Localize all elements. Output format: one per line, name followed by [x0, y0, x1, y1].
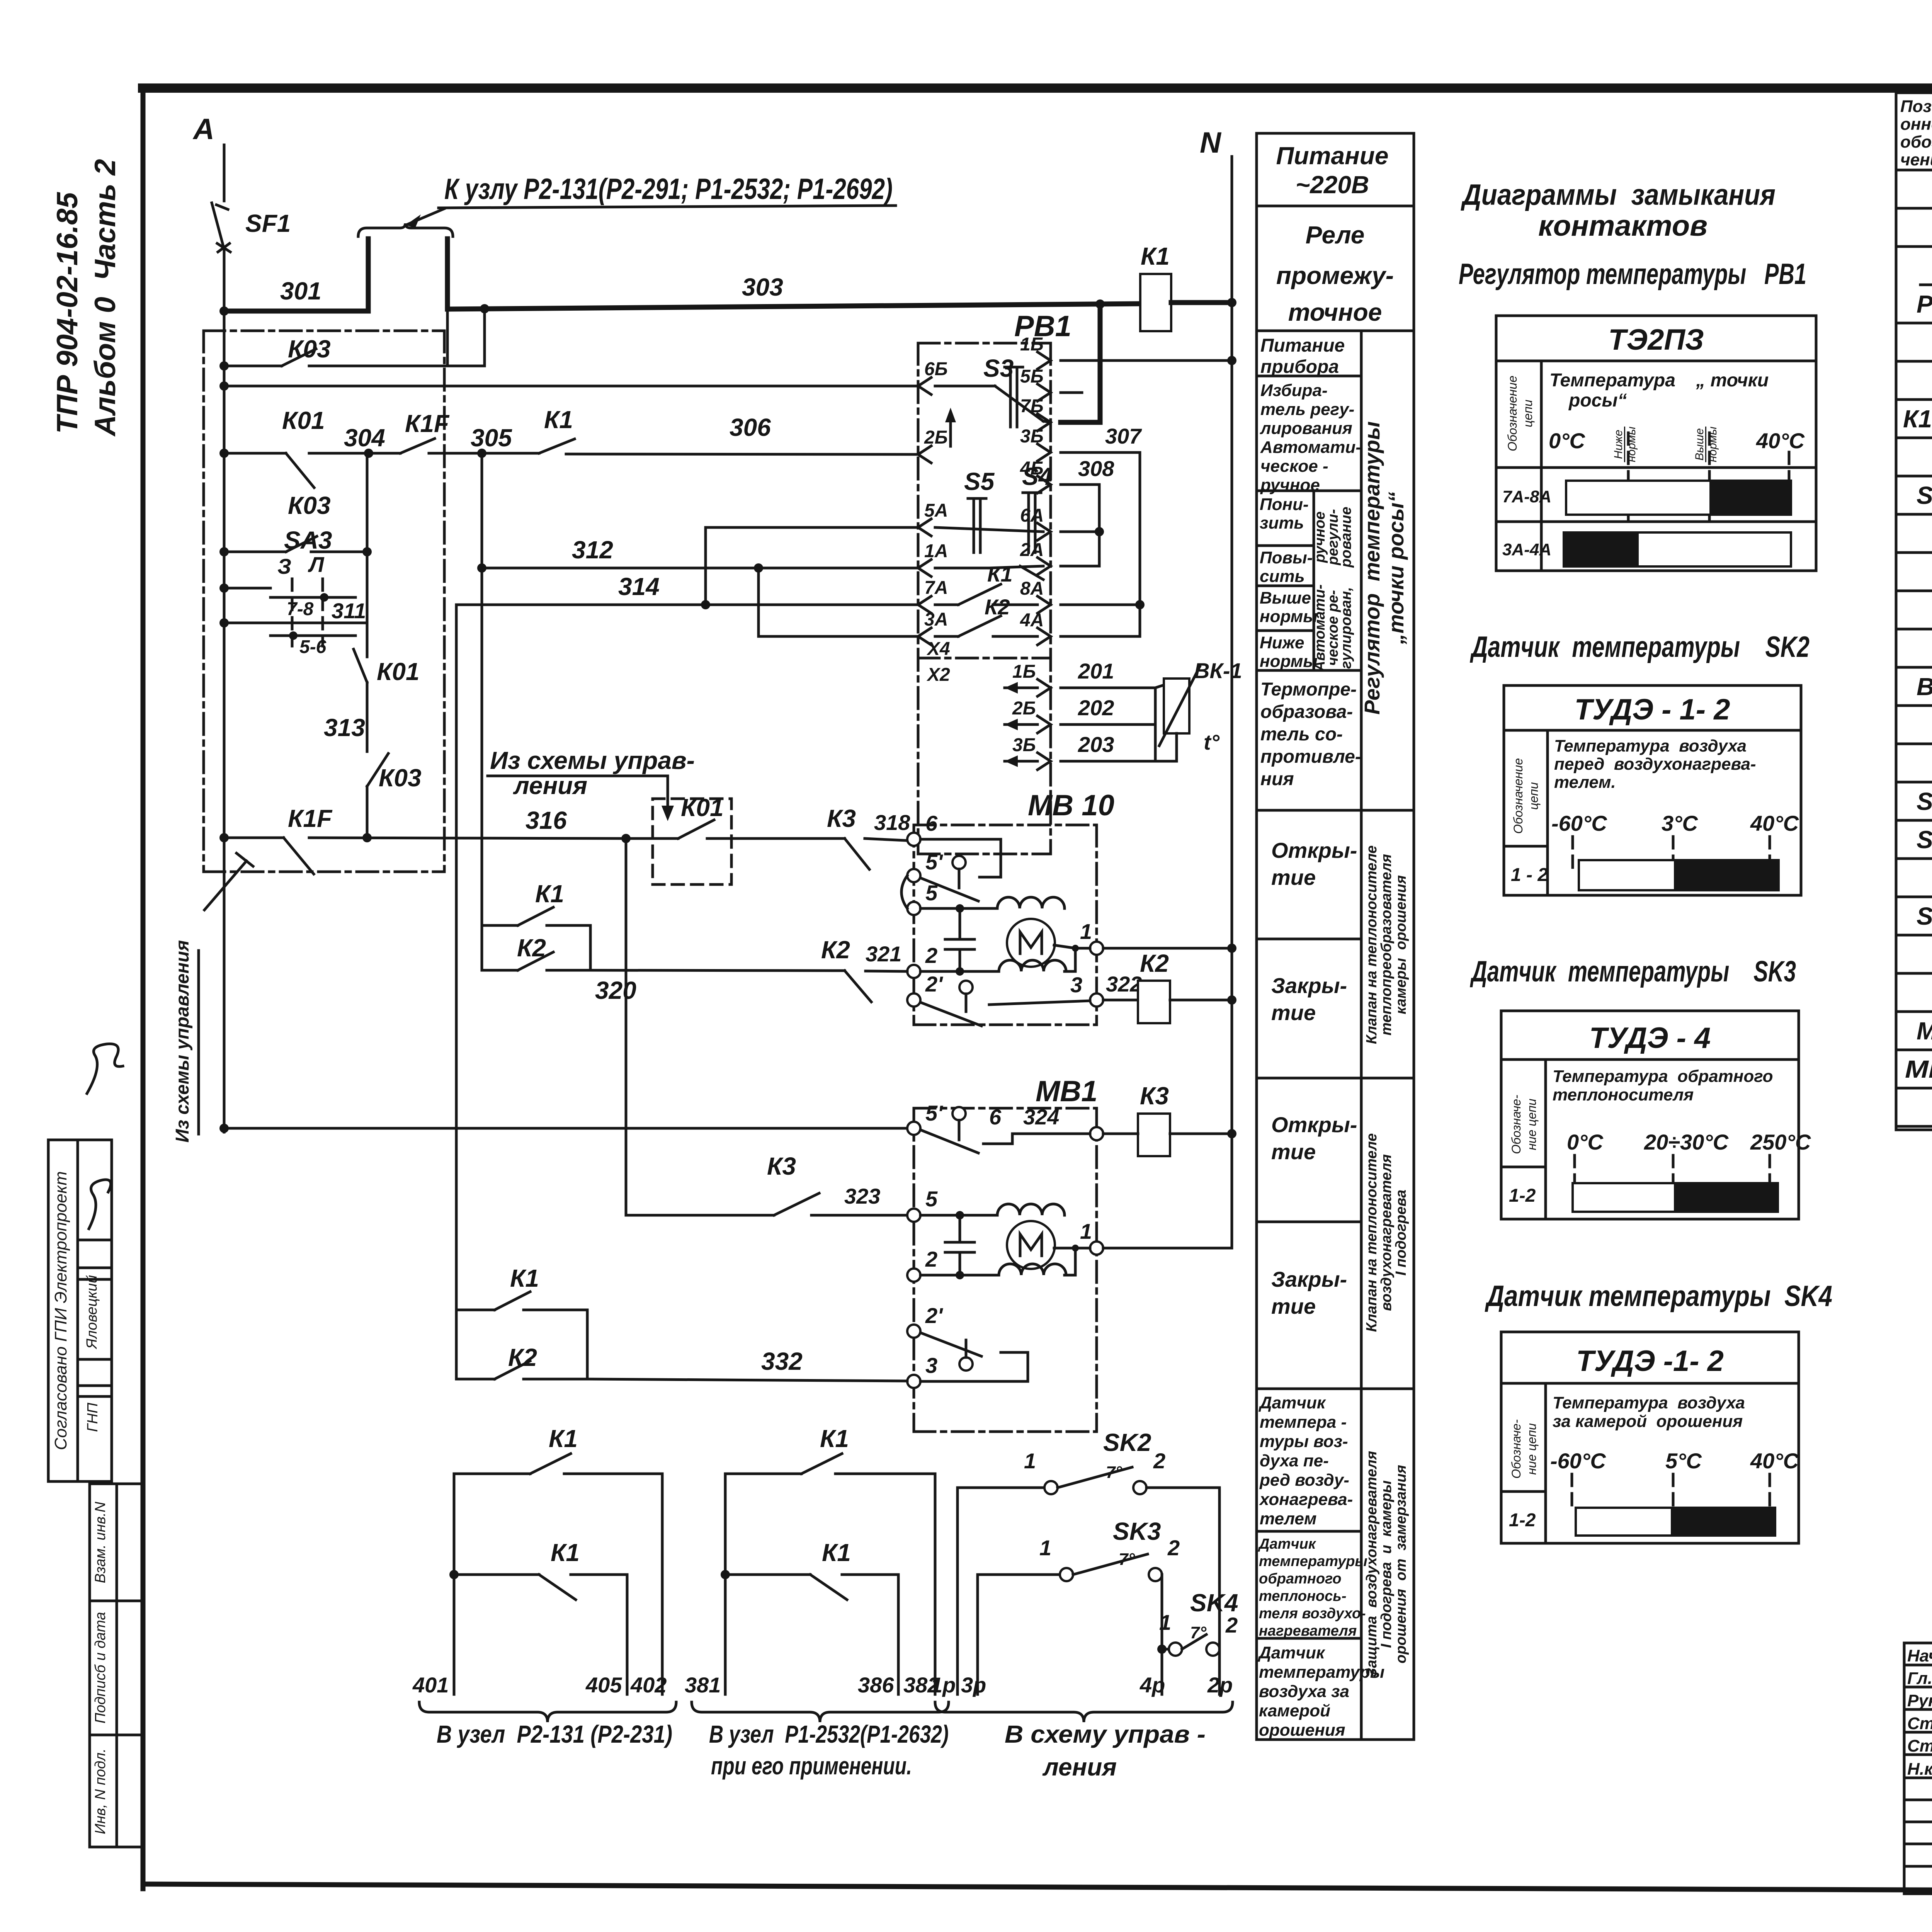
MB1 limit switch top	[920, 1107, 1090, 1153]
wire to PB1 terminal 6B	[224, 385, 918, 388]
MB10 terminals left	[907, 811, 943, 1007]
svg-text:ления: ления	[1042, 1753, 1117, 1781]
contact K03 in riser	[362, 753, 422, 842]
svg-text:304: 304	[344, 424, 385, 452]
svg-text:1-2: 1-2	[1509, 1510, 1536, 1531]
svg-text:6: 6	[989, 1105, 1002, 1129]
svg-text:2А: 2А	[1020, 540, 1044, 560]
svg-text:1-2: 1-2	[1509, 1185, 1536, 1206]
svg-text:2': 2'	[925, 972, 943, 996]
svg-text:К03: К03	[288, 492, 331, 519]
svg-text:К03: К03	[288, 335, 331, 363]
svg-text:306: 306	[730, 413, 771, 441]
svg-text:ТЭ2ПЗ: ТЭ2ПЗ	[1608, 323, 1704, 356]
svg-text:Н.контр.: Н.контр.	[1907, 1760, 1932, 1779]
svg-text:К2: К2	[508, 1344, 537, 1371]
svg-text:К1: К1	[822, 1539, 851, 1566]
contact K1F row 316	[224, 804, 631, 874]
svg-text:Инв, N подл.: Инв, N подл.	[92, 1748, 109, 1834]
svg-text:1: 1	[1024, 1449, 1036, 1473]
stub 5B	[1061, 391, 1082, 394]
svg-text:теплопреобразователя: теплопреобразователя	[1378, 854, 1395, 1036]
svg-text:7А-8А: 7А-8А	[1502, 487, 1551, 506]
svg-text:3: 3	[1070, 973, 1082, 997]
svg-text:ТПР 904-02-16.85: ТПР 904-02-16.85	[51, 192, 84, 434]
wire 314 / 7A row	[456, 573, 918, 609]
svg-text:К3: К3	[1140, 1082, 1169, 1110]
svg-text:S5: S5	[964, 468, 995, 495]
breaker SF1	[212, 203, 291, 252]
contact K3 wire 323	[626, 1152, 907, 1215]
bus A wire below SF1	[223, 249, 226, 1132]
wire 332	[587, 1347, 907, 1381]
svg-text:3А: 3А	[924, 609, 948, 630]
svg-text:323: 323	[844, 1184, 880, 1208]
PB1 right terminals	[1020, 334, 1051, 645]
row SK3	[1917, 902, 1932, 1007]
svg-text:К1: К1	[535, 880, 564, 908]
svg-text:2: 2	[1153, 1449, 1165, 1473]
svg-text:ручное: ручное	[1260, 476, 1320, 495]
svg-text:ред возду-: ред возду-	[1259, 1471, 1349, 1490]
svg-text:Температура обратного: Температура обратного	[1553, 1067, 1773, 1086]
svg-text:К01: К01	[681, 794, 724, 821]
signature rows text	[1907, 1646, 1932, 1779]
svg-text:Альбом 0 Часть 2: Альбом 0 Часть 2	[89, 159, 122, 437]
svg-text:К2: К2	[1140, 949, 1169, 977]
svg-text:313: 313	[324, 714, 365, 742]
svg-text:нормы: нормы	[1260, 607, 1318, 626]
svg-text:К3: К3	[767, 1152, 796, 1180]
svg-text:314: 314	[618, 573, 660, 600]
svg-text:Закры-: Закры-	[1271, 1267, 1347, 1291]
MB10 motor M	[1007, 919, 1055, 967]
svg-text:К1F: К1F	[405, 410, 450, 437]
wire 1B to N	[1061, 356, 1236, 365]
thermometer BK-1	[1155, 658, 1242, 761]
svg-text:Позици-: Позици-	[1900, 97, 1932, 116]
MB10 windings	[997, 897, 1065, 908]
svg-text:308: 308	[1078, 456, 1114, 481]
svg-text:Согласовано ГПИ Электропроект: Согласовано ГПИ Электропроект	[51, 1171, 70, 1450]
svg-text:духа пе-: духа пе-	[1260, 1451, 1329, 1470]
diagrams title	[1461, 179, 1776, 242]
svg-text:SK2: SK2	[1103, 1429, 1151, 1456]
svg-text:ние цепи: ние цепи	[1525, 1099, 1539, 1150]
svg-text:ВК-1: ВК-1	[1194, 658, 1242, 683]
panel boundary dash-dot	[204, 331, 444, 872]
svg-text:нагревателя: нагревателя	[1259, 1623, 1357, 1639]
svg-text:324: 324	[1023, 1105, 1059, 1129]
svg-text:Из схемы управ-: Из схемы управ-	[490, 747, 695, 774]
svg-text:3А-4А: 3А-4А	[1502, 540, 1551, 559]
svg-text:Питание: Питание	[1260, 335, 1345, 356]
svg-text:Х2: Х2	[926, 665, 950, 685]
svg-text:цепи: цепи	[1527, 782, 1541, 810]
svg-text:Автомати-: Автомати-	[1260, 438, 1361, 457]
svg-text:МВ10: МВ10	[1905, 1055, 1932, 1083]
svg-text:Температура воздуха: Температура воздуха	[1553, 1393, 1745, 1412]
svg-text:Датчик: Датчик	[1258, 1536, 1316, 1552]
svg-text:Клапан на теплоносителе: Клапан на теплоносителе	[1364, 845, 1380, 1044]
svg-text:Клапан на теплоносителе: Клапан на теплоносителе	[1364, 1133, 1380, 1332]
svg-text:чение: чение	[1900, 150, 1932, 169]
svg-text:Яловецкий: Яловецкий	[84, 1275, 100, 1350]
svg-text:1Б: 1Б	[1012, 662, 1036, 682]
svg-text:307: 307	[1105, 424, 1142, 448]
svg-text:401: 401	[412, 1673, 449, 1697]
contact K3 row 318	[827, 804, 913, 869]
svg-text:Выше: Выше	[1260, 588, 1311, 607]
tap to node P2-131: risers and brace	[358, 173, 896, 311]
svg-text:Откры-: Откры-	[1271, 1112, 1357, 1137]
MB1 motor M	[1007, 1221, 1055, 1269]
aux circuit to node P1-2532	[685, 1425, 949, 1780]
contact K2 wire 321	[821, 936, 907, 1002]
svg-text:Термопре-: Термопре-	[1260, 679, 1357, 700]
MB10 internal wires	[920, 908, 1090, 971]
riser x950 from row 304 to SA3 area	[366, 453, 369, 623]
MB10 limit switch top	[920, 839, 1001, 901]
contact K03 upper row	[224, 309, 485, 366]
link 3B-8A-4A	[1061, 452, 1145, 636]
svg-text:воздухонагревателя: воздухонагревателя	[1378, 1154, 1395, 1311]
svg-text:318: 318	[874, 810, 910, 835]
svg-text:Датчик температуры SK4: Датчик температуры SK4	[1485, 1280, 1832, 1313]
svg-text:ние цепи: ние цепи	[1525, 1423, 1539, 1475]
svg-text:тие: тие	[1271, 1000, 1316, 1025]
svg-text:К1: К1	[987, 562, 1013, 586]
bus A vertical wire	[223, 145, 226, 201]
border frame	[138, 83, 1932, 93]
svg-text:303: 303	[742, 273, 783, 301]
svg-text:1 - 2: 1 - 2	[1511, 865, 1548, 885]
riser x1181 down to MB1 contacts	[455, 605, 458, 1310]
svg-text:Пони-: Пони-	[1260, 495, 1309, 514]
svg-text:Обозначение: Обозначение	[1511, 758, 1525, 834]
svg-text:Питание: Питание	[1276, 142, 1389, 170]
svg-text:телем.: телем.	[1554, 773, 1616, 792]
row MB1 MB10	[1905, 1017, 1932, 1083]
switch S5	[964, 468, 995, 553]
leader from control circuit text	[488, 747, 695, 821]
svg-text:за камерой орошения: за камерой орошения	[1553, 1412, 1743, 1431]
svg-text:2: 2	[1167, 1536, 1180, 1560]
manual drive arrow	[945, 408, 956, 446]
svg-text:ческое -: ческое -	[1260, 457, 1328, 476]
svg-text:К01: К01	[377, 658, 420, 685]
svg-text:301: 301	[280, 277, 321, 305]
contact K1 branch MB10	[482, 880, 590, 970]
svg-text:Рук. гр.: Рук. гр.	[1907, 1691, 1932, 1710]
wire 308 chain 4B-6A-2A	[1061, 456, 1114, 566]
svg-text:образова-: образова-	[1260, 702, 1353, 722]
wire 301	[224, 277, 368, 311]
dashed box around contact K01	[626, 794, 845, 884]
svg-text:В схему управ -: В схему управ -	[1005, 1720, 1206, 1748]
aux circuit to control scheme SK2 SK3 SK4	[930, 1429, 1238, 1781]
MB10 terminals right 1 and 3	[1070, 919, 1142, 1007]
svg-text:Обозначение: Обозначение	[1505, 376, 1519, 451]
svg-text:К1÷К3: К1÷К3	[1903, 405, 1932, 433]
contact K1 7A-8A	[935, 562, 1037, 605]
svg-text:точное: точное	[1288, 298, 1382, 326]
wire 322 to coil K2	[1103, 999, 1138, 1002]
svg-text:ГНП: ГНП	[85, 1403, 101, 1432]
svg-text:Регулятор температуры РВ1: Регулятор температуры РВ1	[1459, 258, 1806, 291]
svg-text:З: З	[277, 554, 291, 578]
svg-text:теплоносителя: теплоносителя	[1553, 1085, 1694, 1104]
svg-text:туры воз-: туры воз-	[1260, 1432, 1348, 1451]
svg-text:7°: 7°	[1106, 1463, 1122, 1482]
stamp box Soglasovano	[48, 1044, 123, 1481]
svg-text:К1: К1	[820, 1425, 849, 1452]
contact K03 second row	[224, 492, 372, 556]
aux circuit to node P2-131	[412, 1425, 676, 1748]
svg-text:К2: К2	[821, 936, 850, 964]
relay coil K1	[1140, 242, 1171, 331]
svg-text:Температура „ точки: Температура „ точки	[1549, 370, 1769, 391]
diagram TUDE-1-2 second	[1501, 1332, 1799, 1543]
diagram TUDE-1-2	[1504, 685, 1801, 895]
wire 3A row	[759, 635, 918, 638]
svg-text:5А: 5А	[924, 500, 948, 521]
svg-text:4р: 4р	[1139, 1673, 1165, 1697]
contact K1 row 306	[482, 406, 918, 454]
link 7B to wire 303	[1061, 304, 1100, 422]
svg-text:перед воздухонагрева-: перед воздухонагрева-	[1554, 755, 1756, 774]
svg-text:К1: К1	[549, 1425, 578, 1452]
svg-text:3: 3	[925, 1353, 937, 1378]
svg-text:8А: 8А	[1020, 578, 1044, 599]
legend rotated regulator temperatury	[1360, 421, 1408, 714]
svg-text:1: 1	[1080, 1219, 1092, 1243]
svg-text:теля воздухо-: теля воздухо-	[1259, 1605, 1366, 1622]
svg-text:обратного: обратного	[1259, 1571, 1342, 1587]
svg-text:прибора: прибора	[1260, 357, 1339, 377]
svg-text:2Б: 2Б	[924, 427, 948, 448]
svg-text:темпера -: темпера -	[1260, 1413, 1347, 1432]
svg-text:2': 2'	[925, 1303, 943, 1328]
svg-text:2р: 2р	[1207, 1673, 1233, 1697]
svg-text:381: 381	[685, 1673, 721, 1697]
svg-text:В узел Р2-131 (Р2-231): В узел Р2-131 (Р2-231)	[437, 1720, 672, 1748]
svg-text:7°: 7°	[1119, 1550, 1135, 1569]
svg-text:воздуха за: воздуха за	[1259, 1682, 1349, 1701]
svg-text:К узлу Р2-131(Р2-291; Р1-2532;: К узлу Р2-131(Р2-291; Р1-2532; Р1-2692)	[444, 173, 893, 206]
svg-text:рование: рование	[1338, 507, 1354, 568]
contact 1A-2A	[935, 566, 1043, 580]
riser to wire 323	[625, 838, 628, 1215]
svg-text:цепи: цепи	[1521, 400, 1535, 427]
svg-text:7А: 7А	[924, 578, 948, 598]
svg-text:тель регу-: тель регу-	[1260, 400, 1354, 419]
PB1 measuring terminals 1B 2B 3B	[1005, 659, 1155, 770]
MB1 capacitor	[959, 1215, 961, 1242]
svg-text:S4: S4	[1022, 463, 1052, 490]
svg-text:5Б: 5Б	[1020, 366, 1044, 387]
svg-text:2Б: 2Б	[1012, 698, 1036, 719]
svg-text:промежу-: промежу-	[1276, 262, 1394, 289]
svg-text:0°С: 0°С	[1567, 1130, 1604, 1154]
svg-text:SK3: SK3	[1917, 902, 1932, 930]
svg-text:7°: 7°	[1190, 1623, 1206, 1642]
svg-text:6Б: 6Б	[924, 359, 948, 379]
svg-text:ТУДЭ - 4: ТУДЭ - 4	[1589, 1022, 1711, 1054]
svg-text:I подогрева: I подогрева	[1393, 1190, 1409, 1276]
contact K01 row 304	[224, 406, 385, 488]
svg-text:МВ1: МВ1	[1917, 1017, 1932, 1045]
relay coil K2	[1138, 949, 1236, 1023]
contact K1F	[369, 410, 512, 458]
svg-text:В узел Р1-2532(Р1-2632): В узел Р1-2532(Р1-2632)	[709, 1720, 949, 1748]
svg-text:противле-: противле-	[1260, 747, 1361, 767]
svg-text:К1: К1	[510, 1264, 539, 1292]
svg-text:Датчик: Датчик	[1257, 1643, 1326, 1662]
svg-text:40°С: 40°С	[1756, 429, 1805, 453]
title block signature columns	[1904, 1643, 1932, 1894]
svg-text:203: 203	[1078, 732, 1114, 757]
legend column header Pitanie 220V	[1257, 133, 1414, 206]
svg-text:Взам. инв.N: Взам. инв.N	[92, 1502, 109, 1583]
svg-text:1р: 1р	[930, 1673, 956, 1697]
svg-text:орошения от замерзания: орошения от замерзания	[1393, 1465, 1409, 1663]
svg-text:обозна-: обозна-	[1900, 133, 1932, 151]
svg-text:-60°С: -60°С	[1550, 1449, 1606, 1473]
MB1 internal wires	[920, 1215, 1090, 1275]
svg-text:SK2: SK2	[1917, 787, 1932, 815]
control circuit note vertical	[172, 853, 253, 1143]
svg-text:SA3: SA3	[284, 526, 332, 554]
dashed separator	[1920, 284, 1932, 286]
svg-text:Датчик: Датчик	[1258, 1393, 1327, 1412]
switch S3 inside PB1	[935, 354, 1051, 427]
legend box Rele promezhutochnoe	[1257, 206, 1414, 331]
svg-text:К01: К01	[282, 406, 325, 434]
svg-text:t°: t°	[1204, 730, 1220, 754]
svg-text:Диаграммы замыкания: Диаграммы замыкания	[1461, 179, 1776, 211]
actuator MB1 dash-dot box	[914, 1075, 1097, 1432]
svg-text:онное: онное	[1900, 115, 1932, 134]
svg-text:контактов: контактов	[1538, 209, 1708, 242]
svg-text:телем: телем	[1260, 1509, 1316, 1528]
svg-text:1Б: 1Б	[1020, 334, 1044, 355]
svg-text:тие: тие	[1271, 865, 1316, 889]
svg-text:Избира-: Избира-	[1260, 381, 1328, 400]
svg-text:405: 405	[585, 1673, 622, 1697]
svg-text:при его применении.: при его применении.	[711, 1752, 912, 1780]
svg-text:Обозначе-: Обозначе-	[1509, 1419, 1523, 1478]
svg-text:I подогрева и камеры: I подогрева и камеры	[1378, 1480, 1395, 1648]
svg-text:3°С: 3°С	[1662, 811, 1699, 835]
svg-text:5-6: 5-6	[299, 637, 327, 657]
wire 303	[447, 273, 1140, 313]
svg-text:305: 305	[471, 424, 512, 452]
wire MB10 terminal1 to N	[1103, 944, 1236, 953]
contact K1 branch MB1	[456, 1264, 587, 1379]
contact 5A-6A	[935, 527, 1043, 532]
svg-text:320: 320	[595, 976, 636, 1004]
svg-text:камеры орошения: камеры орошения	[1393, 875, 1409, 1014]
riser x1247 down to MB10 contacts	[481, 453, 483, 925]
svg-text:Выше: Выше	[1693, 428, 1706, 461]
svg-text:2: 2	[925, 943, 937, 968]
svg-text:Из схемы управления: Из схемы управления	[172, 940, 193, 1143]
svg-text:1: 1	[1159, 1610, 1171, 1634]
svg-text:Регулятор температуры: Регулятор температуры	[1360, 421, 1384, 714]
svg-text:МВ1: МВ1	[1036, 1075, 1097, 1108]
svg-text:5°С: 5°С	[1665, 1449, 1702, 1473]
regulator PB1 dash-dot box	[918, 310, 1071, 854]
svg-text:322: 322	[1106, 972, 1142, 996]
parts table grid	[1896, 93, 1932, 1130]
svg-text:Обозначе-: Обозначе-	[1509, 1095, 1523, 1154]
wire 307	[1061, 424, 1142, 452]
legend main table grid	[1257, 331, 1414, 1740]
svg-text:SF1: SF1	[1917, 481, 1932, 509]
svg-text:6: 6	[925, 811, 938, 835]
wire MB1 terminal1 to N	[1103, 1247, 1232, 1250]
svg-text:201: 201	[1078, 659, 1114, 683]
svg-text:402: 402	[630, 1673, 667, 1697]
svg-text:5: 5	[925, 1187, 938, 1211]
row BK1	[1917, 673, 1932, 777]
contact K2 3A-4A	[935, 595, 1037, 636]
svg-text:0°С: 0°С	[1549, 429, 1586, 453]
svg-text:Реле: Реле	[1306, 221, 1365, 249]
svg-text:нормы: нормы	[1260, 652, 1318, 671]
svg-text:К2: К2	[517, 934, 546, 962]
svg-text:311: 311	[332, 599, 366, 623]
svg-text:тие: тие	[1271, 1294, 1316, 1318]
MB1 terminals left	[907, 1101, 943, 1388]
svg-text:Подписб и дата: Подписб и дата	[92, 1612, 109, 1724]
svg-text:Откры-: Откры-	[1271, 838, 1357, 862]
svg-text:1А: 1А	[924, 541, 948, 561]
contact K01 in riser	[354, 623, 420, 685]
bus N vertical wire	[1231, 156, 1233, 1248]
contact K2 branch MB10	[482, 925, 590, 970]
svg-text:К1: К1	[1141, 242, 1170, 270]
svg-text:температуры: температуры	[1259, 1553, 1367, 1570]
svg-text:тель со-: тель со-	[1260, 724, 1343, 745]
svg-text:SF1: SF1	[245, 209, 291, 237]
svg-text:ВК1: ВК1	[1917, 673, 1932, 701]
svg-text:Датчик температуры SK3: Датчик температуры SK3	[1470, 955, 1796, 988]
svg-text:росы“: росы“	[1568, 390, 1627, 411]
MB1 terminals right 6 and 1	[989, 1105, 1103, 1255]
svg-text:386: 386	[858, 1673, 894, 1697]
row SF1	[1917, 481, 1932, 586]
svg-text:Защита воздухонагревателя: Защита воздухонагревателя	[1364, 1451, 1380, 1677]
svg-text:312: 312	[572, 536, 613, 564]
svg-text:20÷30°С: 20÷30°С	[1644, 1130, 1729, 1154]
svg-text:камерой: камерой	[1259, 1701, 1330, 1720]
svg-text:-60°С: -60°С	[1551, 811, 1607, 835]
svg-text:К2: К2	[985, 595, 1010, 619]
left margin doc designation vertical text	[51, 159, 122, 437]
svg-text:40°С: 40°С	[1750, 1449, 1799, 1473]
svg-text:МВ 10: МВ 10	[1028, 789, 1114, 822]
connector X4/X2	[918, 639, 1051, 685]
svg-text:„точки росы“: „точки росы“	[1384, 492, 1408, 645]
svg-text:хонагрева-: хонагрева-	[1259, 1490, 1353, 1509]
svg-text:SK3: SK3	[1113, 1517, 1161, 1545]
stamp box Podpis i data	[90, 1601, 143, 1735]
switch S4	[1022, 463, 1052, 553]
svg-text:гулирован,: гулирован,	[1338, 587, 1354, 669]
MB10 limit switch bottom	[920, 981, 1090, 1026]
